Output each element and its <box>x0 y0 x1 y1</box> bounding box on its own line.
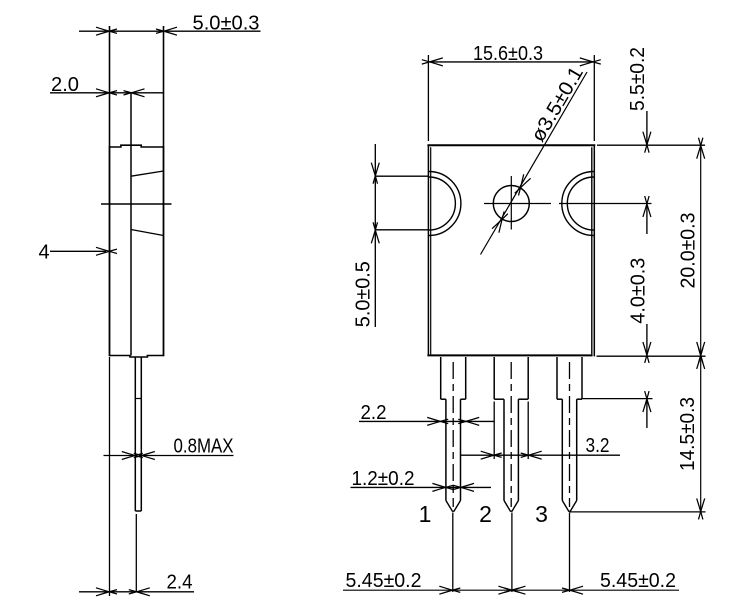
leader line for hole diameter <box>481 72 588 255</box>
dimension text 14.5+-0.3 (rotated) <box>677 397 699 471</box>
front view body bottom edge <box>427 354 592 356</box>
dimension line 5.45 pitch (bottom) <box>343 589 679 591</box>
front view body left edge inner <box>430 147 432 354</box>
extension line bottom of notch for 5.0 dimension <box>375 229 428 231</box>
dimension text 5.0+-0.5 (rotated) <box>353 261 375 327</box>
svg-text:15.6±0.3: 15.6±0.3 <box>473 43 543 65</box>
lead 2 centerline extension to 5.45 dimension <box>511 513 513 593</box>
svg-text:5.0±0.5: 5.0±0.5 <box>353 261 375 327</box>
right mounting notch inner arc <box>567 177 593 230</box>
svg-text:2.2: 2.2 <box>361 402 387 424</box>
dimension line 5.0+-0.5 (notch span, vertical) <box>374 144 376 327</box>
dimension text diameter 3.5+-0.1 (rotated along leader) <box>527 63 588 146</box>
svg-text:3.2: 3.2 <box>586 435 610 457</box>
right mounting notch outer arc <box>562 172 594 236</box>
dimension line 20.0 and 14.5 (vertical, far right) <box>700 145 702 512</box>
dimension line 5.5+-0.2 (edge to hole center) <box>646 111 648 145</box>
left mounting notch inner arc <box>429 177 455 230</box>
front view body right edge outer <box>593 145 595 356</box>
left view body top edge with raised step <box>110 145 164 147</box>
extension line lead2 right shoulder edge <box>527 402 529 460</box>
extension line body bottom edge to right <box>597 355 706 357</box>
svg-text:2.4: 2.4 <box>167 572 193 594</box>
left view lead bottom end <box>135 510 141 512</box>
dimension line 3.2 (center lead width) <box>461 454 620 456</box>
svg-text:2: 2 <box>479 501 492 527</box>
svg-text:5.5±0.2: 5.5±0.2 <box>627 47 649 111</box>
hole horizontal centerline segment through right notch <box>559 203 652 205</box>
svg-text:0.8MAX: 0.8MAX <box>174 435 234 457</box>
extension line left for 15.6 dimension <box>427 55 429 141</box>
svg-text:5.45±0.2: 5.45±0.2 <box>346 570 422 592</box>
svg-text:1.2±0.2: 1.2±0.2 <box>352 468 415 490</box>
dimension line 2.0 (tab thickness) <box>50 92 164 94</box>
front view body top edge <box>427 144 595 146</box>
extension line lead step level to right <box>583 398 653 400</box>
left view upper chamfer slant line <box>131 171 164 176</box>
left view lead left edge <box>134 357 136 511</box>
leader arrow for label 4 <box>50 250 106 252</box>
left view side-profile outline left extension line <box>109 26 111 146</box>
left mounting notch outer arc <box>429 172 461 236</box>
mounting hole circle ø3.5 <box>493 186 529 222</box>
lead 3 centerline extension to 5.45 dimension <box>569 513 571 593</box>
svg-text:20.0±0.3: 20.0±0.3 <box>677 213 699 289</box>
extension line right for 15.6 dimension <box>593 55 595 141</box>
leader arrowhead lower (points at hole edge) <box>499 212 504 233</box>
left view body left edge <box>109 146 111 356</box>
left view lead crimp tick <box>135 398 141 400</box>
dimension line 5.0+-0.3 (package thickness, top) <box>79 30 261 32</box>
lead 1 centerline extension to 5.45 dimension <box>452 513 454 593</box>
svg-text:3: 3 <box>535 501 548 527</box>
left view lower chamfer slant line <box>131 230 164 236</box>
dimension text 20.0+-0.3 (rotated) <box>677 213 699 289</box>
front view body right edge inner <box>591 147 593 354</box>
lead 3 (base) outline front view <box>556 357 558 399</box>
front view body left edge outer <box>427 145 429 355</box>
extension line lead2 left shoulder edge <box>493 402 495 460</box>
dimension line 2.2 (outer lead width) <box>359 420 494 422</box>
mounting hole vertical centerline <box>510 176 512 230</box>
left view side-profile outline right extension line <box>163 26 165 146</box>
svg-text:2.0: 2.0 <box>51 74 79 96</box>
dimension text 5.5+-0.2 (rotated) <box>627 47 649 111</box>
svg-text:1: 1 <box>419 501 432 527</box>
dimension line 4.0+-0.3 (body bottom to step) <box>646 324 648 355</box>
left view tab/body boundary line (vertical) <box>130 93 132 356</box>
left view hole centerline (horizontal) <box>101 203 172 205</box>
dimension line 0.8MAX (lead thickness) <box>104 455 136 457</box>
svg-text:4.0±0.3: 4.0±0.3 <box>628 258 650 324</box>
left view body right edge <box>163 146 165 356</box>
left view body bottom edge with recessed step <box>110 356 164 358</box>
lead 1 (emitter) outline front view <box>440 357 442 399</box>
left view body-front extension line to 2.4 dimension <box>109 357 111 596</box>
dimension text 4.0+-0.3 (rotated) <box>628 258 650 324</box>
svg-text:5.0±0.3: 5.0±0.3 <box>193 12 260 34</box>
svg-text:4: 4 <box>39 242 50 264</box>
extension line lead tip level to right <box>570 511 706 513</box>
dimension line 2.4 (lead setback, bottom) <box>79 591 194 593</box>
left view lead extension line to 2.4 dimension <box>135 514 137 592</box>
lead 2 (collector) outline front view <box>493 357 495 399</box>
extension line body top edge to right <box>597 144 705 146</box>
left view lead right edge <box>140 357 142 511</box>
leader arrowhead upper (points at hole edge) <box>519 174 524 195</box>
hole horizontal centerline segment through hole <box>484 203 551 205</box>
extension line top of notch for 5.0 dimension <box>375 175 428 177</box>
dimension line 1.2+-0.2 (lead tip width) <box>351 486 492 488</box>
svg-text:14.5±0.3: 14.5±0.3 <box>677 397 699 471</box>
dimension line 15.6+-0.3 (body width) <box>429 61 593 63</box>
svg-text:5.45±0.2: 5.45±0.2 <box>600 570 676 592</box>
